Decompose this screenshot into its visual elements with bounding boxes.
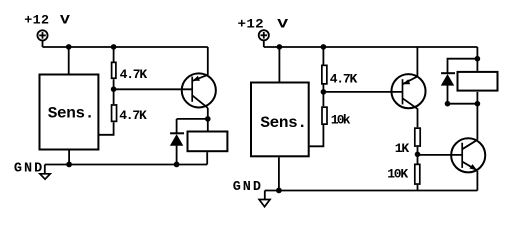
svg-text:+12: +12 [238, 17, 265, 32]
wire: +12V rail (left) [43, 46, 208, 48]
wire: base wire to Q3 [418, 154, 463, 156]
node: rail/Sens junction dot [66, 44, 72, 50]
wire: relay bottom to ground rail [206, 152, 208, 164]
wire: diode branch down [176, 119, 178, 133]
svg-text:10k: 10k [331, 113, 351, 128]
wire: R3 bottom to node [322, 84, 324, 106]
label +12 V (right) [238, 17, 289, 32]
label +12 V (left) [24, 13, 70, 28]
wire: Q1 collector down to relay [207, 108, 209, 131]
relay coil box (right) [458, 72, 498, 91]
ground symbol (right) [259, 191, 270, 207]
transistor Q2 (right upper, PNP) [391, 74, 425, 109]
svg-text:10K: 10K [387, 167, 408, 182]
label 4.7K (R1) [120, 67, 148, 82]
wire: R1 bottom to node [113, 79, 115, 104]
resistor R5 1K [415, 128, 420, 146]
svg-text:Sens.: Sens. [48, 105, 94, 123]
node: diode bottom junction dot [445, 101, 451, 107]
label 4.7K (R2) [119, 108, 147, 123]
svg-text:1K: 1K [395, 141, 410, 156]
wire: rail corner down to relay node [476, 47, 478, 71]
label Sens. (left) [48, 105, 94, 123]
relay coil box (left) [188, 132, 228, 152]
resistor R6 10K [415, 164, 420, 184]
label GND (right) [233, 180, 263, 195]
wire: base wire to Q1 [114, 88, 193, 90]
node: relay top junction dot [475, 56, 481, 62]
wire: R1 top stub [113, 47, 115, 62]
resistor R1 4.7K (left top) [112, 62, 116, 78]
svg-text:4.7K: 4.7K [119, 108, 147, 123]
label 1K (R5) [395, 141, 410, 156]
wire: diode node to collector node [448, 103, 478, 105]
wire: ground rail (right) [265, 190, 478, 192]
wire: collector node to diode branch [177, 118, 208, 120]
svg-text:4.7K: 4.7K [330, 71, 358, 86]
svg-text:V: V [277, 17, 288, 32]
wire: base wire to Q2 [323, 91, 402, 93]
node: diode ground junction dot [174, 162, 180, 168]
node: rail/R3 junction dot [321, 44, 327, 50]
wire: Q3 emitter down to ground rail [476, 171, 478, 191]
wire: relay node to diode branch [448, 59, 478, 73]
sensor box (left) [40, 75, 99, 150]
diode D2 (right, cathode bar) [441, 72, 455, 74]
wire: Sens bottom to ground [278, 157, 280, 190]
node: R5/R6/base junction dot [415, 152, 421, 158]
wire: diode to ground rail [176, 146, 178, 165]
wire: R4 bottom to Sens right side [310, 125, 324, 146]
svg-text:GND: GND [233, 180, 263, 195]
wire: terminal stub to rail [263, 40, 265, 47]
node: R3/R4/base junction dot [321, 89, 327, 95]
resistor R2 4.7K (left bottom) [112, 105, 117, 121]
wire: diode to lower node [447, 86, 449, 104]
wire: +12V rail (right) [264, 46, 478, 48]
svg-text:V: V [60, 13, 70, 28]
resistor R4 10k (right) [322, 107, 327, 124]
label Sens. (right) [260, 114, 306, 132]
wire: R6 bottom to ground rail [417, 185, 419, 191]
wire: Sens bottom to ground [68, 150, 70, 164]
wire: terminal stub to rail [42, 40, 44, 47]
wire: relay node down to Q3 collector [476, 104, 478, 140]
label 10k (R4) [331, 113, 351, 128]
node: collector/diode junction dot [205, 116, 211, 122]
label 4.7K (R3) [330, 71, 358, 86]
wire: rail down to Sens box [68, 47, 70, 74]
power terminal (right +12V) [259, 30, 269, 40]
label 10K (R6) [387, 167, 408, 182]
diode D1 (left, cathode bar) [170, 132, 184, 134]
sensor box (right) [251, 83, 309, 157]
wire: R2 bottom to Sens right side [99, 122, 114, 135]
wire: rail corner down to Q1 emitter [207, 47, 209, 75]
wire: R5 bottom to node [417, 147, 419, 164]
svg-text:4.7K: 4.7K [120, 67, 148, 82]
ground symbol (left) [40, 165, 50, 180]
node: rail/Sens junction dot [277, 44, 283, 50]
power terminal (left +12V) [37, 30, 47, 40]
node: Sens ground junction dot [276, 188, 282, 194]
wire: Q2 collector down to R5 [417, 108, 419, 127]
wire: rail down to Q2 emitter [416, 47, 418, 76]
node: relay/collector junction dot [475, 101, 481, 107]
node: Sens ground junction dot [66, 162, 72, 168]
transistor Q3 (right lower, NPN) [451, 138, 485, 172]
wire: R3 top stub [322, 47, 324, 65]
transistor Q1 (left, PNP) [182, 73, 216, 108]
svg-text:Sens.: Sens. [260, 114, 306, 132]
svg-text:+12: +12 [24, 13, 49, 28]
wire: relay bottom stub [476, 92, 478, 104]
diode D1 triangle [170, 134, 183, 146]
wire: rail down to Sens box [278, 47, 280, 82]
diode D2 triangle [441, 74, 454, 86]
label GND (left) [14, 161, 44, 176]
node: R1/R2/base junction dot [111, 86, 117, 92]
node: rail/R1 junction dot [111, 44, 117, 50]
wire: ground rail (left) [45, 164, 207, 166]
resistor R3 4.7K (right) [322, 65, 327, 84]
